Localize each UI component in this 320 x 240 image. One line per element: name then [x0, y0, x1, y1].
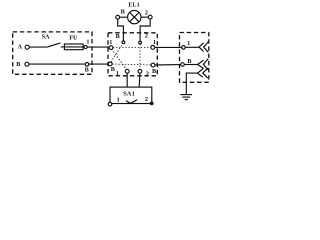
- svg-text:1: 1: [86, 38, 89, 45]
- svg-text:FU: FU: [69, 34, 78, 41]
- svg-text:B: B: [121, 8, 125, 15]
- svg-text:B: B: [187, 58, 191, 65]
- svg-text:B: B: [111, 66, 115, 73]
- svg-text:SA: SA: [42, 34, 50, 41]
- svg-text:EL1: EL1: [128, 3, 140, 9]
- svg-text:2: 2: [146, 70, 149, 77]
- svg-text:B: B: [152, 68, 156, 75]
- svg-text:2: 2: [145, 96, 148, 103]
- svg-text:1: 1: [187, 40, 190, 47]
- svg-text:1: 1: [116, 70, 119, 77]
- svg-text:1: 1: [109, 39, 112, 46]
- svg-text:B: B: [16, 61, 20, 68]
- svg-text:B: B: [85, 66, 89, 73]
- svg-text:1: 1: [117, 97, 120, 104]
- svg-text:A: A: [18, 44, 23, 51]
- svg-text:B: B: [116, 33, 120, 40]
- svg-text:1: 1: [153, 39, 156, 46]
- svg-text:2: 2: [145, 32, 148, 39]
- svg-text:2: 2: [145, 10, 148, 17]
- svg-text:SA1: SA1: [123, 90, 135, 97]
